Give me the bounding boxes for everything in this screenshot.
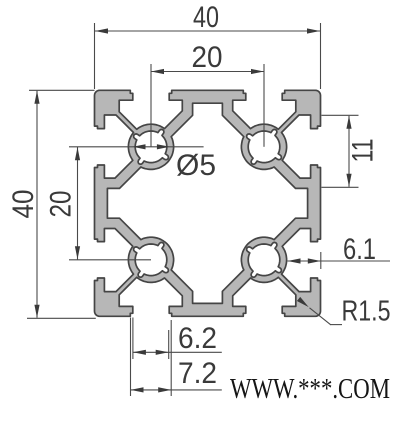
dim 6.2 [132,318,134,360]
left dim 40 [29,89,95,91]
svg-text:11: 11 [347,139,380,163]
svg-text:7.2: 7.2 [178,357,217,390]
svg-text:WWW.***.COM: WWW.***.COM [230,374,390,405]
svg-text:40: 40 [193,1,219,34]
svg-text:6.1: 6.1 [343,233,376,266]
dia 5 label [125,146,204,148]
dim 7.2 [130,318,132,397]
svg-text:20: 20 [192,41,223,74]
svg-text:40: 40 [7,190,40,219]
dim 6.1 [288,260,391,262]
left dim 20 [69,146,125,148]
svg-text:Ø5: Ø5 [176,149,216,182]
label R1.5 [331,324,343,326]
top dim 20 [150,64,152,147]
aluminum profile cross-section 4040 [95,90,321,316]
svg-text:6.2: 6.2 [178,322,217,355]
svg-text:R1.5: R1.5 [342,296,391,328]
svg-text:20: 20 [45,191,78,218]
top dim 40 [94,23,96,89]
right dim 11 [322,114,359,116]
